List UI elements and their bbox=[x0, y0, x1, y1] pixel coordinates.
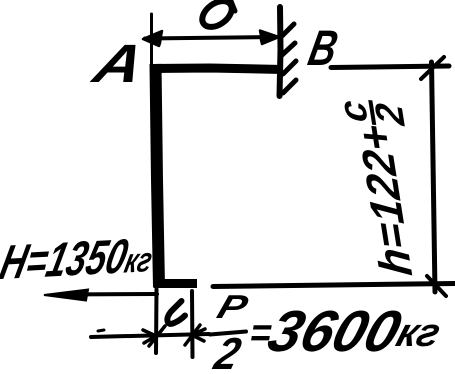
arrowhead left of dimension a bbox=[143, 31, 162, 46]
dimension line a bbox=[145, 37, 277, 39]
arrowhead right of dimension a bbox=[260, 31, 279, 45]
value 3600kg bbox=[261, 298, 450, 365]
force H arrow (pointing left) bbox=[60, 292, 157, 297]
arrowhead pointing right at left extension bbox=[143, 326, 165, 346]
hatch 4 at support B bbox=[283, 80, 296, 93]
node label A bbox=[87, 33, 151, 95]
extension line left of small dimension t bbox=[154, 289, 159, 353]
small tick at far left of t dimension line bbox=[98, 330, 104, 331]
equals sign bbox=[246, 311, 275, 356]
column AE (thick vertical member) bbox=[156, 64, 160, 287]
force label H=1350kg bbox=[0, 228, 159, 292]
extension line from B to right dimension bbox=[331, 66, 449, 68]
arrow tick bottom of h dimension bbox=[427, 276, 446, 296]
fraction bar of P/2 bbox=[210, 332, 246, 335]
force H arrowhead bbox=[44, 290, 88, 301]
node label B bbox=[304, 19, 343, 77]
arrow tick top of h dimension bbox=[421, 57, 444, 79]
vertical dimension line h on the right bbox=[432, 62, 436, 292]
dimension label a (hand-drawn oval) bbox=[197, 0, 236, 32]
extension line right of small dimension t bbox=[190, 291, 195, 357]
dimension line t (left part with arrow) bbox=[91, 334, 209, 337]
dimension label h=122+c/2 (rotated) bbox=[344, 98, 425, 277]
hatch 3 at support B bbox=[283, 61, 296, 74]
label P/2 denominator 2 bbox=[209, 328, 246, 374]
beam AB (thick horizontal member) bbox=[150, 68, 283, 70]
extension line above column for dimension a bbox=[150, 14, 153, 66]
foot (thick horizontal base at column bottom) bbox=[154, 279, 198, 288]
hatch 2 at support B bbox=[282, 43, 295, 55]
dimension label t (hand-drawn) bbox=[167, 301, 185, 324]
top-right horn of label a bbox=[231, 1, 235, 11]
label P/2 numerator P bbox=[213, 288, 253, 326]
bottom extension line for h dimension bbox=[213, 284, 455, 287]
hatch 1 at support B bbox=[282, 24, 294, 36]
arrowhead pointing left at right extension bbox=[185, 325, 205, 345]
wall line at support B bbox=[280, 7, 281, 96]
